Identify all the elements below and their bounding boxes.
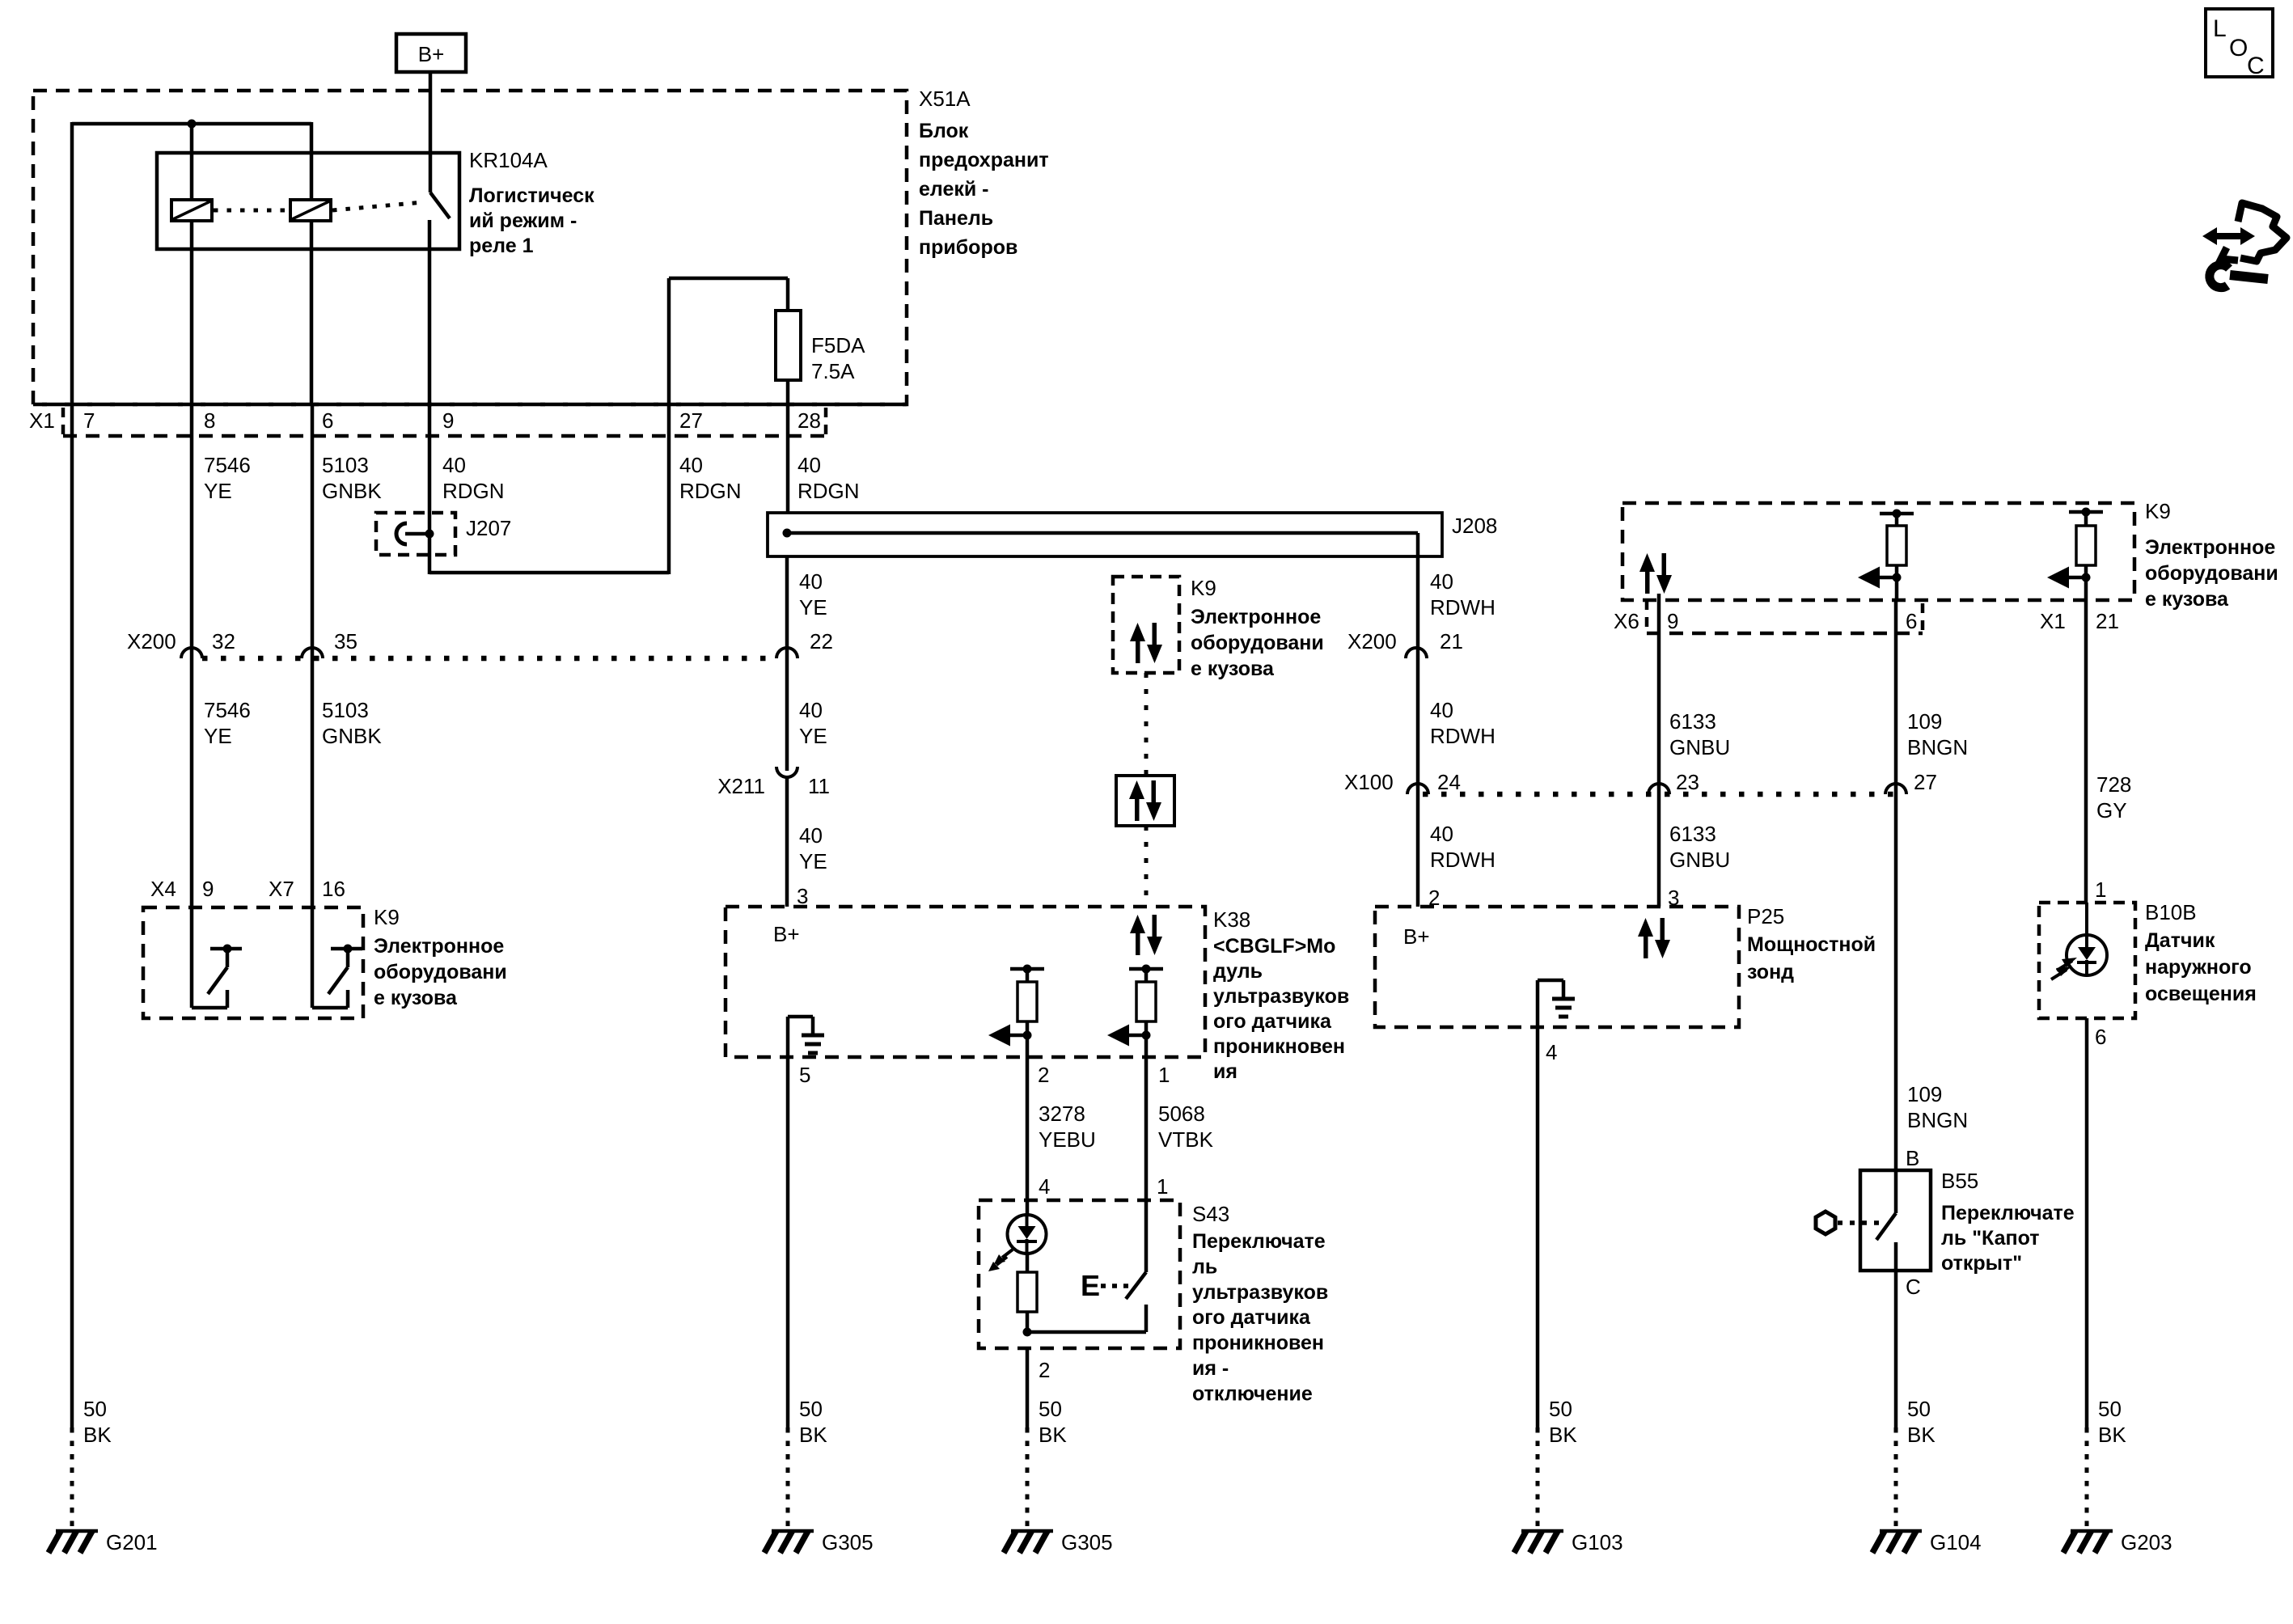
svg-text:5068: 5068 [1158, 1102, 1205, 1126]
S43 actuator dotted [1101, 1284, 1132, 1288]
svg-text:109: 109 [1907, 1082, 1942, 1106]
svg-text:RDGN: RDGN [797, 479, 860, 503]
wire K38 pin1 to S43 [1144, 1057, 1149, 1200]
svg-text:S43: S43 [1192, 1202, 1229, 1226]
label J208 [1452, 514, 1497, 538]
svg-text:22: 22 [810, 629, 833, 653]
splice pack J208 box [768, 513, 1442, 556]
svg-text:GNBU: GNBU [1669, 735, 1730, 759]
svg-text:приборов: приборов [919, 236, 1017, 259]
svg-text:16: 16 [322, 877, 345, 901]
svg-text:Панель: Панель [919, 207, 993, 230]
wire link pin9 pin27 [429, 571, 669, 575]
svg-text:3: 3 [1668, 886, 1679, 910]
B10B light arrows [2051, 958, 2077, 979]
X100 pin 27 connector [1885, 770, 1937, 794]
svg-text:Логистическ: Логистическ [469, 184, 594, 207]
svg-text:4: 4 [1039, 1174, 1050, 1199]
K9 switch contact b [312, 907, 362, 1008]
svg-text:RDWH: RDWH [1430, 848, 1496, 872]
label 50 BK right3 [2098, 1397, 2126, 1447]
P25 ground symbol [1538, 980, 1575, 1027]
label J207 [466, 516, 511, 540]
svg-text:оборудовани: оборудовани [1191, 632, 1324, 654]
label 50 BK mid2 [1039, 1397, 1067, 1447]
pin 11 [808, 774, 830, 798]
svg-text:GY: GY [2096, 798, 2127, 823]
K38 arrow pin2 [988, 1025, 1032, 1058]
B10B photodiode [2067, 903, 2107, 975]
svg-text:зонд: зонд [1747, 961, 1794, 983]
serial data gateway box [1116, 776, 1174, 826]
relay actuator dotted link [214, 202, 424, 210]
svg-text:7546: 7546 [204, 698, 251, 722]
P25 B+ label [1403, 924, 1430, 949]
K9 switch contact a [192, 907, 242, 1008]
svg-text:Электронное: Электронное [2145, 536, 2275, 559]
label 40 RDGN pin9 [442, 453, 505, 503]
svg-text:J208: J208 [1452, 514, 1497, 538]
svg-text:40: 40 [1430, 569, 1453, 594]
svg-text:BK: BK [2098, 1423, 2126, 1447]
svg-text:K9: K9 [2145, 499, 2171, 523]
wire pin28 down [786, 404, 790, 513]
svg-text:BK: BK [1549, 1423, 1577, 1447]
svg-text:BK: BK [1907, 1423, 1936, 1447]
svg-text:P25: P25 [1747, 904, 1784, 928]
svg-text:B+: B+ [1403, 924, 1430, 949]
module P25 dashed box [1375, 907, 1739, 1027]
relay KR104A box [157, 153, 459, 249]
svg-text:728: 728 [2096, 772, 2131, 797]
X100 pin 24 connector [1407, 770, 1461, 794]
svg-text:5103: 5103 [322, 453, 369, 477]
ground G203 [2063, 1530, 2172, 1554]
X200 pin 32 connector [181, 629, 235, 658]
svg-text:проникновен: проникновен [1192, 1332, 1324, 1355]
svg-text:KR104A: KR104A [469, 148, 548, 172]
svg-text:е кузова: е кузова [1191, 658, 1275, 680]
svg-text:G305: G305 [822, 1530, 874, 1554]
svg-text:6: 6 [1906, 609, 1917, 633]
svg-text:ого датчика: ого датчика [1192, 1306, 1311, 1329]
svg-text:YE: YE [204, 724, 232, 748]
pin 1 B10B [2095, 878, 2106, 902]
label 50 BK mid1 [799, 1397, 827, 1447]
pin 2 S43 [1039, 1358, 1050, 1382]
pin 16 X7 [322, 877, 345, 901]
label K9 left [374, 905, 400, 929]
label X51A [919, 87, 971, 111]
ground G305 b [1004, 1530, 1113, 1554]
pin B B55 [1906, 1146, 1919, 1170]
svg-text:X1: X1 [29, 408, 55, 433]
label P25 [1747, 904, 1784, 928]
fuse block X51A dashed box [33, 91, 907, 404]
label 728 GY [2096, 772, 2131, 823]
wire relay switch lower contact [428, 220, 432, 404]
svg-text:C: C [1906, 1275, 1921, 1299]
svg-text:предохранит: предохранит [919, 149, 1049, 171]
label 5103 GNBK b [322, 698, 382, 748]
K9 arrow pin21 [2047, 567, 2091, 601]
svg-text:BK: BK [1039, 1423, 1067, 1447]
X51A description text [919, 120, 1049, 259]
svg-text:дуль: дуль [1213, 960, 1263, 983]
J208 bus wire [787, 531, 1418, 535]
svg-text:9: 9 [1667, 609, 1678, 633]
switch S43 dashed box [979, 1200, 1180, 1348]
wire K38 pin2 to S43 [1026, 1057, 1030, 1200]
K9 arrow pin6 [1858, 567, 1902, 601]
svg-text:K9: K9 [374, 905, 400, 929]
label X7 [269, 877, 294, 901]
svg-text:Электронное: Электронное [374, 935, 504, 958]
label 5103 GNBK [322, 453, 382, 503]
pin 4 P25 [1546, 1040, 1557, 1064]
K9 middle serial data arrows [1130, 623, 1162, 663]
svg-text:отключение: отключение [1192, 1382, 1313, 1405]
K38 resistor pin1 [1129, 965, 1163, 1036]
X200 pin 35 connector [302, 629, 357, 658]
label K9 middle [1191, 576, 1216, 600]
wire pin7 to G201 [70, 404, 74, 1529]
wire fuse branch [669, 278, 788, 404]
pin 7 [83, 408, 95, 433]
svg-text:YE: YE [799, 724, 827, 748]
svg-text:YE: YE [799, 595, 827, 620]
svg-text:21: 21 [1440, 629, 1463, 653]
wire relay coil1 to pin 8 [190, 221, 194, 404]
label 40 RDWH c [1430, 822, 1496, 872]
pin 8 [204, 408, 215, 433]
label 109 BNGN a [1907, 709, 1968, 759]
K9 resistor pin21 [2069, 508, 2103, 578]
ground G103 [1514, 1530, 1623, 1554]
svg-text:B55: B55 [1941, 1169, 1978, 1193]
serial data dotted link lower [1144, 826, 1149, 907]
svg-text:GNBU: GNBU [1669, 848, 1730, 872]
node J207 splice [425, 530, 434, 539]
svg-text:ий режим -: ий режим - [469, 209, 577, 232]
LOC legend box [2206, 9, 2273, 79]
wire pin9 down [428, 404, 432, 574]
pin 6 B10B [2095, 1025, 2106, 1049]
label K38 [1213, 907, 1250, 932]
svg-text:5103: 5103 [322, 698, 369, 722]
wire B10B to G203 [2085, 1018, 2089, 1529]
label 7546 YE [204, 453, 251, 503]
svg-text:11: 11 [808, 774, 830, 798]
svg-text:G203: G203 [2121, 1530, 2172, 1554]
label 40 RDWH a [1430, 569, 1496, 620]
wire K9-21 to B10B [2084, 600, 2088, 903]
J207 terminal symbol [396, 523, 429, 544]
X200 pin 21 connector [1347, 629, 1463, 658]
B55 actuator dotted [1838, 1220, 1885, 1225]
K9 middle description [1191, 606, 1324, 680]
X100 pin 23 connector [1648, 770, 1699, 794]
svg-text:9: 9 [202, 877, 214, 901]
svg-text:B+: B+ [773, 922, 800, 946]
svg-text:наружного: наружного [2145, 956, 2252, 979]
K38 arrow pin1 [1107, 1025, 1151, 1058]
label 7546 YE b [204, 698, 251, 748]
svg-text:G103: G103 [1572, 1530, 1623, 1554]
svg-text:Электронное: Электронное [1191, 606, 1321, 628]
svg-text:открыт": открыт" [1941, 1252, 2022, 1275]
svg-text:6: 6 [2095, 1025, 2106, 1049]
wire J208 to X200-22 [785, 556, 789, 771]
svg-text:ия -: ия - [1192, 1357, 1229, 1380]
svg-text:X200: X200 [127, 629, 176, 653]
svg-text:21: 21 [2096, 609, 2119, 633]
label 50 BK right2 [1907, 1397, 1936, 1447]
wire coil 1 drop [190, 124, 194, 200]
label 40 RDWH b [1430, 698, 1496, 748]
wire B+ to relay switch [429, 72, 433, 192]
label 50 BK right1 [1549, 1397, 1577, 1447]
pin 28 [797, 408, 821, 433]
pin 9 X6 [1667, 609, 1678, 633]
module K9 left dashed box [143, 907, 363, 1018]
label S43 [1192, 1202, 1229, 1226]
svg-text:40: 40 [1430, 698, 1453, 722]
svg-text:40: 40 [442, 453, 466, 477]
svg-text:YE: YE [204, 479, 232, 503]
svg-text:G305: G305 [1061, 1530, 1113, 1554]
svg-text:1: 1 [1157, 1174, 1168, 1199]
K38 B+ label [773, 922, 800, 946]
connector X1 row [33, 404, 907, 436]
svg-text:L: L [2213, 15, 2227, 42]
ground G201 [49, 1530, 158, 1554]
label X211 [717, 774, 765, 798]
svg-text:ого датчика: ого датчика [1213, 1010, 1332, 1033]
svg-text:109: 109 [1907, 709, 1942, 734]
svg-text:K9: K9 [1191, 576, 1216, 600]
wire K38 pin5 to G305 [786, 1057, 790, 1529]
wire relay feed horizontal [72, 122, 311, 404]
svg-text:K38: K38 [1213, 907, 1250, 932]
node J208 splice [783, 529, 792, 538]
label 109 BNGN b [1907, 1082, 1968, 1132]
label X1 right [2040, 609, 2066, 633]
label K9 right [2145, 499, 2171, 523]
svg-text:O: O [2229, 35, 2248, 61]
svg-text:X1: X1 [2040, 609, 2066, 633]
wire X100-24 to P25 [1416, 785, 1420, 907]
svg-text:RDWH: RDWH [1430, 595, 1496, 620]
svg-text:ия: ия [1213, 1060, 1237, 1083]
svg-text:B10B: B10B [2145, 900, 2197, 924]
svg-text:7546: 7546 [204, 453, 251, 477]
svg-text:B+: B+ [418, 42, 445, 66]
S43 indicator LED [1008, 1200, 1047, 1254]
fuse F5DA [776, 311, 801, 404]
svg-text:50: 50 [1907, 1397, 1931, 1421]
label X1 [29, 408, 55, 433]
wire pin27 down [667, 404, 671, 574]
pin 3 P25 [1668, 886, 1679, 910]
node junction coil 1 feed [188, 120, 197, 129]
label 6133 GNBU b [1669, 822, 1730, 872]
K38 serial data arrows [1130, 915, 1162, 955]
svg-text:3278: 3278 [1039, 1102, 1085, 1126]
B55 actuator hex [1816, 1212, 1835, 1234]
svg-text:X7: X7 [269, 877, 294, 901]
wire X6-6 to X100-27 [1894, 600, 1898, 1172]
label B10B [2145, 900, 2197, 924]
module K9 middle dashed box [1113, 577, 1179, 673]
svg-text:E: E [1081, 1269, 1100, 1302]
svg-text:6: 6 [322, 408, 333, 433]
wire coil 2 drop [310, 122, 314, 200]
svg-text:7.5A: 7.5A [811, 359, 855, 383]
connector X200 dotted line [202, 656, 776, 662]
module K9 right dashed box [1622, 503, 2134, 600]
svg-text:X6: X6 [1614, 609, 1639, 633]
svg-text:5: 5 [799, 1063, 810, 1087]
svg-text:40: 40 [797, 453, 821, 477]
svg-text:Мощностной: Мощностной [1747, 933, 1876, 956]
svg-text:VTBK: VTBK [1158, 1127, 1214, 1152]
pin 9 [442, 408, 454, 433]
svg-text:Переключате: Переключате [1192, 1230, 1326, 1253]
svg-text:X51A: X51A [919, 87, 971, 111]
pin 6 [322, 408, 333, 433]
svg-text:32: 32 [212, 629, 235, 653]
svg-text:BNGN: BNGN [1907, 735, 1968, 759]
K9 right serial data arrows [1639, 553, 1672, 600]
wire B55 to G104 [1894, 1271, 1898, 1529]
label 40 RDGN pin28 [797, 453, 860, 503]
svg-text:50: 50 [83, 1397, 107, 1421]
svg-text:50: 50 [799, 1397, 823, 1421]
svg-text:27: 27 [679, 408, 703, 433]
svg-text:ультразвуков: ультразвуков [1213, 985, 1349, 1008]
pin 6 X6 [1906, 609, 1917, 633]
svg-text:35: 35 [334, 629, 357, 653]
wire X6-9 to X100-23 [1657, 600, 1661, 907]
svg-text:1: 1 [1158, 1063, 1170, 1087]
svg-text:GNBK: GNBK [322, 724, 382, 748]
pin 9 X4 [202, 877, 214, 901]
svg-text:9: 9 [442, 408, 454, 433]
switch B55 box [1860, 1170, 1931, 1271]
B55 switch blade [1876, 1170, 1896, 1271]
label 40 RDGN pin27 [679, 453, 742, 503]
svg-text:3: 3 [797, 884, 808, 908]
S43 description [1192, 1230, 1328, 1405]
relay coil 1 [171, 200, 212, 221]
svg-text:GNBK: GNBK [322, 479, 382, 503]
svg-text:оборудовани: оборудовани [2145, 562, 2278, 585]
relay coil 2 [290, 200, 331, 221]
svg-text:7: 7 [83, 408, 95, 433]
svg-text:40: 40 [799, 569, 823, 594]
pin 27 [679, 408, 703, 433]
svg-text:RDGN: RDGN [679, 479, 742, 503]
wire pin8 down [190, 404, 194, 907]
K9 left description [374, 935, 507, 1009]
pin 2 K38 [1038, 1063, 1049, 1087]
S43 LED light arrows [988, 1250, 1013, 1271]
label X100 [1344, 770, 1394, 794]
svg-text:ультразвуков: ультразвуков [1192, 1281, 1328, 1304]
svg-text:освещения: освещения [2145, 983, 2257, 1005]
label X6 [1614, 609, 1639, 633]
svg-text:8: 8 [204, 408, 215, 433]
svg-text:BNGN: BNGN [1907, 1108, 1968, 1132]
label X200 left [127, 629, 176, 653]
ground G104 [1872, 1530, 1982, 1554]
svg-text:X4: X4 [150, 877, 176, 901]
KR104A description text [469, 184, 594, 257]
svg-text:50: 50 [2098, 1397, 2122, 1421]
svg-text:X211: X211 [717, 774, 765, 798]
S43 switch symbol E [1081, 1269, 1100, 1302]
junction J207 dashed box [376, 513, 455, 555]
svg-text:23: 23 [1676, 770, 1699, 794]
S43 LED resistor [1017, 1254, 1037, 1332]
P25 description [1747, 933, 1876, 983]
svg-text:X200: X200 [1347, 629, 1397, 653]
wire P25 pin4 to G103 [1536, 1027, 1540, 1529]
label 3278 YEBU [1039, 1102, 1096, 1152]
label B55 [1941, 1169, 1978, 1193]
label 40 YE a [799, 569, 827, 620]
label 40 YE b [799, 698, 827, 748]
svg-text:40: 40 [799, 698, 823, 722]
K9 resistor pin6 [1880, 510, 1914, 578]
label 50 BK left [83, 1397, 112, 1447]
X200 pin 22 connector [776, 629, 833, 658]
svg-text:B: B [1906, 1146, 1919, 1170]
P25 serial data arrows [1638, 918, 1670, 958]
sensor B10B dashed box [2039, 903, 2135, 1018]
svg-text:J207: J207 [466, 516, 511, 540]
label 6133 GNBU a [1669, 709, 1730, 759]
connector X6 row [1647, 600, 1923, 633]
svg-text:е кузова: е кузова [374, 987, 458, 1009]
svg-text:2: 2 [1038, 1063, 1049, 1087]
module K38 dashed box [726, 907, 1205, 1057]
K38 description [1213, 935, 1349, 1083]
wire pin6 down [311, 404, 315, 907]
svg-text:Переключате: Переключате [1941, 1202, 2075, 1224]
pin 5 K38 [799, 1063, 810, 1087]
label 40 YE c [799, 823, 827, 873]
svg-text:40: 40 [1430, 822, 1453, 846]
svg-text:YE: YE [799, 849, 827, 873]
pin 21 X1 [2096, 609, 2119, 633]
svg-text:40: 40 [679, 453, 703, 477]
svg-text:елекй -: елекй - [919, 178, 989, 201]
svg-text:G201: G201 [106, 1530, 158, 1554]
svg-text:50: 50 [1549, 1397, 1572, 1421]
S43 switch blade [1126, 1200, 1146, 1299]
pin 2 P25 [1428, 886, 1440, 910]
svg-text:50: 50 [1039, 1397, 1062, 1421]
wire J208 right drop [1416, 533, 1420, 785]
K38 ground symbol [788, 1017, 824, 1057]
svg-text:28: 28 [797, 408, 821, 433]
svg-text:6133: 6133 [1669, 822, 1716, 846]
S43 internal junction [1023, 1305, 1147, 1337]
svg-text:4: 4 [1546, 1040, 1557, 1064]
svg-text:ль: ль [1192, 1255, 1217, 1278]
